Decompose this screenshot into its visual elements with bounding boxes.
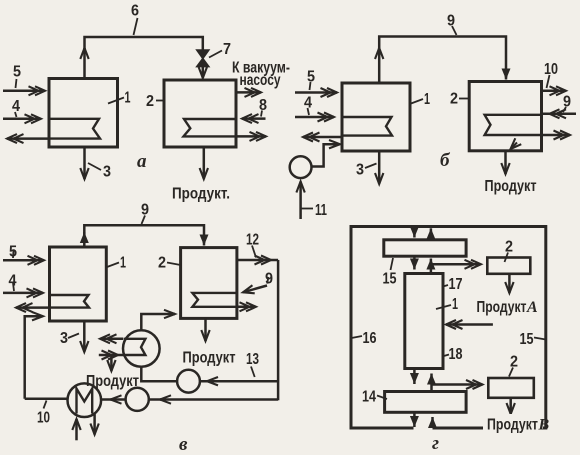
arrow rect14 to rect2 bottom <box>432 383 483 386</box>
svg-text:14: 14 <box>362 389 376 406</box>
svg-text:3: 3 <box>103 164 111 181</box>
svg-text:в: в <box>179 434 188 455</box>
svg-text:18: 18 <box>449 346 463 363</box>
arrow out right <box>236 135 266 138</box>
tick label 6 <box>134 18 138 35</box>
apparatus box 1b <box>342 83 410 151</box>
arrow top edge into rect15 <box>413 227 416 238</box>
svg-text:7: 7 <box>223 41 231 58</box>
svg-text:4: 4 <box>9 273 17 290</box>
arrow 10 out <box>542 90 567 93</box>
svg-text:8: 8 <box>259 97 267 114</box>
M element in crystallizer <box>77 389 93 414</box>
pump on bottom line <box>126 388 149 411</box>
tick label 12 <box>252 246 256 258</box>
tick label 8 <box>261 111 262 117</box>
svg-text:5: 5 <box>307 69 315 86</box>
separator rect 2 top <box>487 258 530 274</box>
arrow rect1 up into rect15 <box>430 259 433 274</box>
wire: vapor line 9 <box>379 37 506 84</box>
tick label 3a <box>88 163 101 170</box>
svg-text:а: а <box>137 151 147 172</box>
tick label 1g <box>436 305 451 309</box>
tick label 9 right <box>563 107 566 112</box>
arrow 4v in <box>3 292 43 295</box>
svg-text:Продукт: Продукт <box>487 417 538 434</box>
tick label 16 <box>352 336 363 338</box>
arrow 4 in <box>3 118 41 121</box>
heat exchanger circle <box>123 330 160 367</box>
arrow out right v2 <box>237 306 256 309</box>
arrow 8 in from right <box>242 117 266 120</box>
apparatus box 2v <box>181 248 237 319</box>
arrow 4b in <box>295 116 334 119</box>
arrow 3b out box1b <box>378 151 381 184</box>
wire line10 to crystallizer <box>25 397 68 400</box>
svg-text:11: 11 <box>315 202 327 219</box>
svg-text:3: 3 <box>356 162 364 179</box>
tick label 2v <box>167 263 181 266</box>
svg-text:насосу: насосу <box>240 72 281 89</box>
svg-text:1: 1 <box>125 90 131 107</box>
tick label 1 <box>108 98 124 104</box>
wire HX bottom to pump 13 <box>141 367 177 381</box>
tick label 10 <box>547 75 550 88</box>
arrow out left b1 <box>303 136 341 139</box>
svg-text:В: В <box>538 417 550 434</box>
arrow down out of crystallizer <box>93 413 96 435</box>
wire valve to box 2 with arrow <box>202 67 205 78</box>
crystallizer circle <box>68 383 102 417</box>
arrow 11 into pump <box>299 182 302 220</box>
svg-text:2: 2 <box>158 255 166 272</box>
feed arrow into rect1 <box>446 323 493 326</box>
wire HX top to box2v <box>141 314 175 330</box>
tick label 9 top <box>452 26 457 35</box>
tick label 13 <box>251 367 255 378</box>
arrowhead up on vapor line <box>83 48 86 50</box>
svg-text:9: 9 <box>265 271 273 288</box>
apparatus box 2b <box>469 82 541 151</box>
svg-text:2: 2 <box>146 93 154 110</box>
tick label 2 <box>156 100 164 102</box>
arrowhead up line9v <box>83 232 86 243</box>
arrow 5b in <box>295 91 337 94</box>
svg-text:Продукт: Продукт <box>86 373 139 390</box>
heating ribbon box 1v <box>50 295 90 308</box>
svg-text:4: 4 <box>304 95 312 112</box>
tick label 2 top g <box>505 253 509 263</box>
wire right vertical 12 down <box>271 260 278 400</box>
HX product down arrow <box>110 356 113 372</box>
valve 7 <box>197 50 209 67</box>
arrow rect15 up to top edge <box>430 228 433 240</box>
tick label 11 <box>301 208 313 210</box>
tick label 15 right <box>534 338 546 340</box>
arrowhead down into box2v <box>203 238 206 246</box>
svg-text:10: 10 <box>37 410 50 427</box>
arrow rect1 down into rect14 <box>413 369 416 385</box>
tick label 5v <box>12 250 15 258</box>
tick label 3b <box>365 164 377 169</box>
arrow out left v1 <box>16 306 48 309</box>
svg-text:6: 6 <box>131 3 139 20</box>
tick label 17 <box>443 285 448 287</box>
product arrow v2 <box>204 318 207 341</box>
arrow to vacuum pump <box>236 91 261 94</box>
tick label 7 <box>209 51 222 58</box>
arrow 9 in right <box>543 113 576 116</box>
arrow 5v in <box>3 259 44 262</box>
svg-text:2: 2 <box>505 239 513 256</box>
separator rect 2 bottom <box>488 378 534 398</box>
product arrow b2 <box>504 151 507 174</box>
tick label 5 <box>16 79 17 88</box>
svg-text:А: А <box>526 299 538 316</box>
arrow 5 in <box>3 90 45 93</box>
pump 11 circle <box>290 156 312 178</box>
svg-text:3: 3 <box>60 330 68 347</box>
tick label 9r <box>267 277 269 284</box>
svg-text:15: 15 <box>383 271 397 288</box>
svg-text:10: 10 <box>544 61 558 78</box>
svg-text:Продукт: Продукт <box>485 178 537 195</box>
heating ribbon in box 1 <box>49 119 100 139</box>
line 13 from right vertical with arrow <box>201 380 279 383</box>
svg-text:9: 9 <box>563 94 571 111</box>
svg-text:15: 15 <box>520 331 534 348</box>
svg-text:13: 13 <box>246 351 259 368</box>
tick label 4 <box>15 112 17 117</box>
tick label 1b <box>411 99 423 104</box>
arrow bottom edge up into rect14 <box>431 417 434 428</box>
wire: vapor line 9v <box>84 225 204 247</box>
arrow rect2top down <box>508 274 511 293</box>
classifier rect 15 top <box>384 240 466 256</box>
arrow 3 product out box1 <box>83 147 86 179</box>
svg-text:Продукт.: Продукт. <box>172 186 230 203</box>
rect 14 bottom <box>385 392 467 413</box>
line 12 out of box2v to right vertical <box>237 259 271 262</box>
arrow 9v into box2v <box>243 286 267 293</box>
arrow rect14 up into rect1 <box>430 374 433 392</box>
tick label 5b <box>310 82 311 90</box>
svg-text:Продукт: Продукт <box>477 299 527 316</box>
HX steam out arrow <box>100 338 123 341</box>
tick label 3v <box>68 334 79 339</box>
arrow up into crystallizer <box>75 419 78 440</box>
tick label 4b <box>308 108 310 115</box>
svg-text:12: 12 <box>246 232 259 249</box>
tick label 18 <box>444 355 449 357</box>
heating ribbon in box 2 (mirrored) <box>184 119 237 136</box>
svg-text:17: 17 <box>449 276 463 293</box>
arrow rect14 down to bottom edge <box>413 412 416 427</box>
tick label 10v <box>44 401 47 409</box>
tick label 4v <box>13 283 14 291</box>
tick label 15 left <box>391 258 394 270</box>
apparatus box 1 <box>49 79 118 148</box>
arrowhead down into box 2b <box>505 70 508 80</box>
heating ribbon box 2v (mirrored) <box>192 293 237 307</box>
svg-text:б: б <box>440 150 451 171</box>
wire pump to box1b <box>312 144 341 166</box>
tick label 2b <box>459 98 469 100</box>
wire: vapor line 6 from box1 top <box>85 37 203 78</box>
svg-text:1: 1 <box>120 255 126 272</box>
crystal growth rect 1 <box>405 274 443 369</box>
bottom line pump to crystallizer <box>102 398 126 401</box>
tick label 14 <box>377 396 387 400</box>
pump on line 13 <box>177 370 200 393</box>
arrow rect15 to rect2 top <box>431 263 481 266</box>
HX steam in arrow <box>99 354 118 357</box>
svg-text:1: 1 <box>452 296 458 313</box>
svg-text:4: 4 <box>12 98 20 115</box>
apparatus box 2 <box>164 80 236 147</box>
heating ribbon box 1b <box>342 117 392 136</box>
svg-text:2: 2 <box>510 354 518 371</box>
svg-text:9: 9 <box>141 202 149 219</box>
arrow rect2bottom down <box>509 398 512 414</box>
ribbon in HX <box>124 339 146 355</box>
Product B <box>483 414 543 431</box>
recycle line 10 into box1v <box>25 316 43 399</box>
arrow out right b2 <box>542 134 571 137</box>
svg-text:Продукт: Продукт <box>183 350 236 367</box>
arrowhead up on line 9 left <box>378 48 381 50</box>
svg-text:5: 5 <box>13 64 21 81</box>
tick label 2 bottom g <box>509 368 513 377</box>
outer circulation duct 15/16 <box>351 227 546 429</box>
svg-text:16: 16 <box>363 330 377 347</box>
svg-text:5: 5 <box>9 244 17 261</box>
tick label 9v <box>142 216 146 225</box>
tick label 1v <box>107 263 119 268</box>
arrow rect15 down into rect1 <box>413 256 416 269</box>
apparatus box 1v <box>50 247 107 321</box>
svg-text:9: 9 <box>447 13 455 30</box>
heating ribbon box 2b (mirrored) <box>485 115 542 135</box>
arrow 3v <box>83 321 86 352</box>
svg-text:1: 1 <box>424 91 430 108</box>
svg-text:2: 2 <box>450 91 458 108</box>
bottom line right vertical to pump <box>150 398 279 401</box>
arrow out left <box>7 137 48 140</box>
product arrow box2 <box>203 147 206 179</box>
circulation tick on box2b bottom <box>511 143 518 150</box>
svg-text:г: г <box>432 433 439 454</box>
